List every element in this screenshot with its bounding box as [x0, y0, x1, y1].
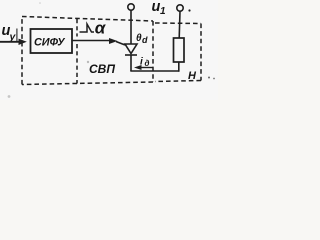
block СИФУ U1	[31, 29, 73, 53]
wire СИФУ output to thyristor gate with arrowhead	[72, 38, 125, 45]
thyristor VD (triangle + cathode bar)	[125, 44, 137, 55]
resistor Н (load)	[174, 38, 185, 62]
wire thyristor anode	[130, 10, 132, 44]
current label i_d	[140, 56, 150, 68]
terminal circle node 1 (supply)	[128, 4, 134, 10]
wire bottom return (cathode to load)	[130, 70, 179, 72]
pulse symbol (gate impulse)	[80, 24, 95, 32]
svg-text:д: д	[145, 59, 150, 68]
current direction arrow i_d (pointing left)	[134, 65, 153, 70]
node u1 supply voltage label	[152, 0, 167, 17]
dashed enclosure left (СИФУ section) + middle (СВП section) outer boundary	[22, 17, 153, 85]
svg-text:Н: Н	[188, 70, 197, 82]
svg-text:СВП: СВП	[89, 62, 115, 76]
dashed enclosure right (load Н section)	[155, 23, 201, 82]
wire load bottom	[178, 62, 180, 72]
ink artifact stroke after u_y	[16, 29, 18, 42]
label theta-d (thyristor designator)	[136, 33, 148, 45]
wire thyristor cathode down	[130, 55, 132, 71]
dot artifact after terminal 2	[188, 9, 190, 11]
svg-text:α: α	[95, 18, 107, 37]
wire supply terminal 2 down to load	[178, 11, 181, 38]
wire input arrow into СИФУ	[0, 39, 27, 45]
svg-text:СИФУ: СИФУ	[34, 37, 65, 49]
svg-text:d: d	[142, 35, 148, 45]
faint scan speckles	[8, 95, 11, 98]
dot artifact bottom right	[208, 77, 210, 79]
svg-text:1: 1	[160, 6, 166, 17]
dashed divider between СИФУ box and СВП (x=77)	[76, 19, 78, 84]
paper background	[0, 0, 218, 100]
terminal circle node 2 (supply)	[177, 5, 183, 11]
node u_y input label	[2, 23, 17, 43]
